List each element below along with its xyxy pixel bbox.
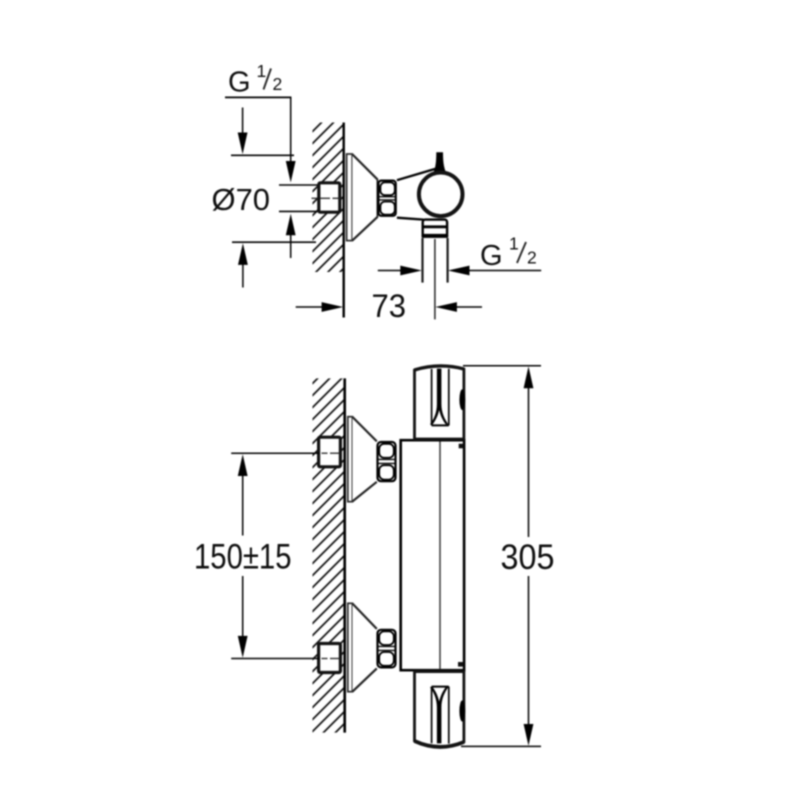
svg-text:150±15: 150±15 bbox=[194, 538, 292, 577]
eco button mark lower bbox=[458, 662, 464, 667]
upper escutcheon cone bbox=[353, 417, 377, 501]
dimension G1/2 pipe: arrow left with shaft bbox=[448, 266, 470, 276]
lower escutcheon base ring bbox=[348, 603, 353, 691]
leader line down to nut bbox=[290, 97, 292, 161]
lower union square in wall bbox=[319, 644, 341, 673]
label G 1/2 (top) bbox=[228, 61, 282, 99]
wall face line (front view) bbox=[343, 378, 346, 732]
svg-text:G: G bbox=[480, 240, 503, 272]
arrow up G1/2 to nut bottom bbox=[286, 214, 296, 236]
knob stem on top bbox=[434, 152, 446, 171]
body face parting line bbox=[439, 442, 441, 670]
svg-text:G: G bbox=[228, 67, 251, 99]
escutcheon base ring (side view) bbox=[347, 154, 353, 241]
lower connection centreline bbox=[231, 658, 319, 660]
upper connection centreline bbox=[231, 452, 319, 454]
valve body (side view) bbox=[397, 169, 445, 220]
wall hatching (side view) bbox=[313, 123, 344, 273]
dimension 305 bottom extension line bbox=[461, 745, 541, 747]
connection nut (side view) bbox=[378, 181, 396, 216]
upper escutcheon base ring bbox=[348, 417, 353, 502]
wall face line (side view) bbox=[343, 123, 345, 318]
dimension 305 line with arrows bbox=[524, 366, 534, 388]
dimension Ø70 lower extension line bbox=[232, 241, 316, 243]
flow indicator bump bbox=[459, 700, 465, 721]
mixer body (front view) bbox=[401, 440, 464, 670]
lower escutcheon cone bbox=[353, 604, 377, 692]
svg-text:305: 305 bbox=[501, 538, 555, 577]
leader underline of G 1/2 (top) bbox=[225, 96, 291, 98]
dimension 73: arrow left to pipe centre bbox=[435, 302, 457, 312]
upper connection nut bbox=[378, 442, 396, 481]
svg-text:2: 2 bbox=[527, 248, 537, 268]
svg-text:1: 1 bbox=[257, 61, 267, 81]
union square in wall (side view) bbox=[319, 183, 340, 212]
union square centerline dashes bbox=[312, 197, 341, 199]
label G 1/2 (right) bbox=[480, 234, 537, 273]
upper union square in wall bbox=[319, 437, 341, 467]
dimension G1/2 pipe: arrow right bbox=[378, 270, 401, 272]
temperature handle (top knob) bbox=[415, 366, 464, 439]
lower connection nut bbox=[378, 630, 396, 668]
dimension 150±15 line with arrows bbox=[238, 454, 248, 476]
dimension 73: arrow right to wall bbox=[296, 306, 322, 308]
top knob top edge emphasis bbox=[415, 366, 464, 370]
bottom knob grip slot bbox=[431, 687, 433, 744]
top knob grip slot bbox=[431, 369, 433, 425]
shower outlet block bbox=[423, 220, 447, 237]
extension stub nut bottom bbox=[279, 210, 318, 212]
thermostat head circle (side view) bbox=[419, 173, 463, 217]
svg-text:73: 73 bbox=[372, 288, 407, 324]
extension stub nut top bbox=[279, 184, 318, 186]
svg-text:2: 2 bbox=[273, 74, 283, 94]
arrow down to Ø70 upper line bbox=[242, 108, 244, 134]
escutcheon cone (side view) bbox=[352, 154, 377, 240]
temperature indicator bump bbox=[459, 389, 465, 410]
arrow up to Ø70 lower line bbox=[238, 243, 248, 265]
svg-text:1: 1 bbox=[509, 234, 519, 254]
bottom knob bottom edge emphasis bbox=[415, 741, 464, 747]
eco button mark upper bbox=[459, 444, 464, 449]
outlet dark collar band bbox=[422, 234, 449, 238]
svg-text:Ø70: Ø70 bbox=[212, 182, 271, 217]
dimension 305 top extension line bbox=[463, 365, 541, 367]
flow handle (bottom knob) bbox=[415, 672, 464, 747]
wall hatching (front view) bbox=[313, 378, 345, 732]
arrow down G1/2 to nut top bbox=[286, 161, 296, 183]
outlet pipe walls bbox=[421, 238, 423, 283]
dimension Ø70 upper extension line bbox=[231, 154, 294, 156]
pipe centre extension line bbox=[434, 239, 436, 319]
